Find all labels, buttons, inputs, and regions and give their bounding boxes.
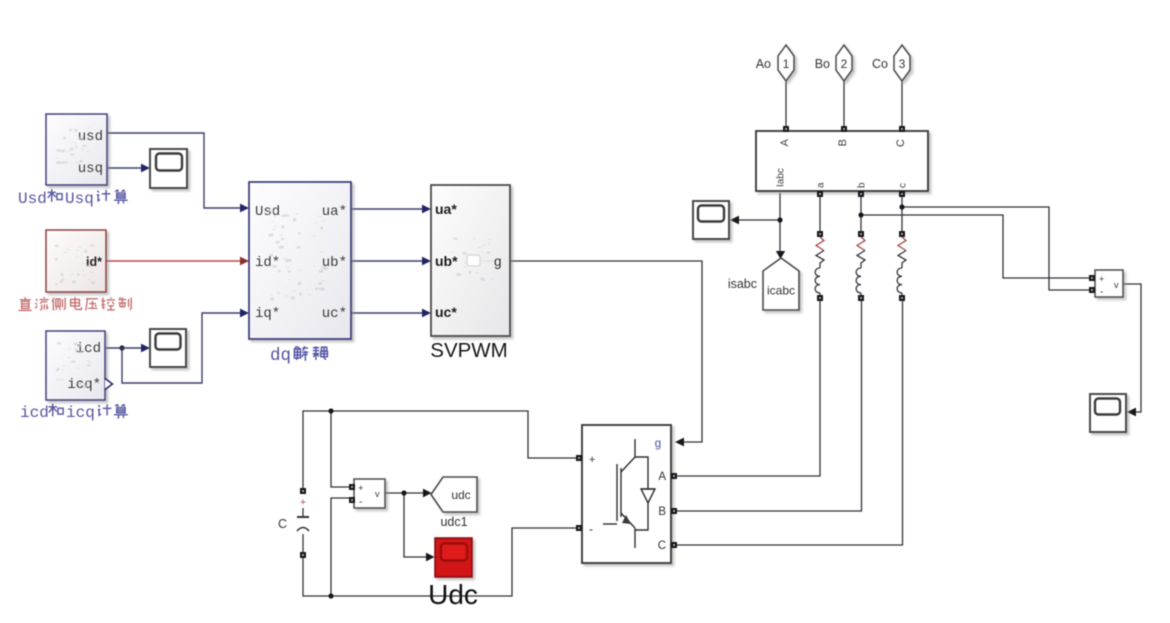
svg-text:v: v (1114, 280, 1119, 290)
svg-text:usq: usq (78, 161, 103, 177)
svg-text:1: 1 (783, 57, 790, 71)
svg-text:Usd: Usd (255, 204, 280, 220)
svg-text:C: C (895, 139, 907, 147)
svg-text:B: B (837, 139, 849, 146)
svg-text:B: B (658, 506, 666, 518)
svg-text:-: - (589, 522, 593, 536)
svg-text:uc*: uc* (322, 306, 347, 322)
svg-text:A: A (779, 138, 791, 146)
svg-text:Iabc: Iabc (776, 168, 787, 187)
svg-text:udc1: udc1 (440, 515, 467, 529)
svg-text:Co: Co (872, 57, 888, 71)
svg-text:v: v (375, 489, 380, 499)
svg-text:isabc: isabc (728, 277, 757, 291)
svg-text:Ao: Ao (756, 57, 771, 71)
svg-text:udc: udc (451, 488, 470, 502)
svg-text:a: a (816, 182, 827, 188)
svg-text:Udc: Udc (428, 579, 478, 610)
svg-text:g: g (494, 254, 502, 269)
svg-text:id*: id* (255, 255, 280, 271)
svg-text:+: + (589, 454, 595, 466)
svg-text:dq: dq (270, 346, 291, 366)
svg-text:Usd: Usd (18, 190, 47, 208)
svg-text:3: 3 (899, 57, 906, 71)
svg-text:A: A (658, 471, 666, 483)
svg-text:g: g (655, 438, 661, 450)
svg-text:-: - (1100, 287, 1103, 298)
svg-text:C: C (658, 540, 666, 552)
svg-text:+: + (1099, 274, 1104, 284)
svg-text:icd: icd (20, 404, 49, 422)
svg-text:b: b (857, 182, 868, 188)
svg-text:+: + (358, 483, 364, 494)
svg-text:Usq: Usq (65, 190, 94, 208)
svg-text:ub*: ub* (435, 253, 458, 269)
svg-text:-: - (359, 496, 363, 508)
svg-text:id*: id* (86, 255, 102, 269)
svg-text:c: c (898, 183, 909, 188)
svg-text:2: 2 (841, 57, 848, 71)
svg-text:ua*: ua* (435, 201, 457, 217)
svg-text:C: C (278, 517, 287, 531)
svg-text:uc*: uc* (435, 304, 457, 320)
svg-text:icq: icq (66, 404, 95, 422)
svg-text:SVPWM: SVPWM (430, 339, 507, 362)
svg-text:icd: icd (76, 341, 101, 357)
svg-text:icabc: icabc (767, 284, 795, 298)
svg-text:iq*: iq* (255, 306, 280, 322)
svg-text:Bo: Bo (815, 57, 830, 71)
